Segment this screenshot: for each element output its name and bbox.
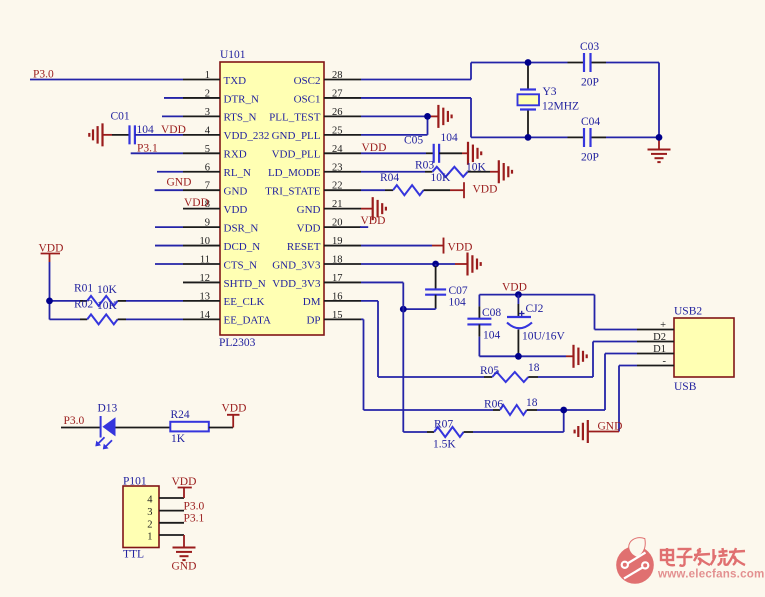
svg-text:3: 3 <box>147 507 152 518</box>
svg-text:18: 18 <box>332 255 343 266</box>
svg-text:1.5K: 1.5K <box>433 439 456 451</box>
svg-text:CTS_N: CTS_N <box>224 259 258 271</box>
svg-text:www.elecfans.com: www.elecfans.com <box>657 568 765 581</box>
svg-text:1: 1 <box>147 532 152 543</box>
svg-text:PLL_TEST: PLL_TEST <box>269 112 321 124</box>
svg-text:GND: GND <box>598 421 623 433</box>
svg-text:1: 1 <box>205 70 210 81</box>
svg-text:20P: 20P <box>581 152 599 164</box>
svg-text:C05: C05 <box>404 135 423 147</box>
svg-text:16: 16 <box>332 291 343 302</box>
svg-text:P3.0: P3.0 <box>64 415 85 427</box>
svg-text:R24: R24 <box>171 409 190 421</box>
svg-text:DM: DM <box>303 296 321 308</box>
svg-text:C03: C03 <box>580 41 599 53</box>
svg-text:104: 104 <box>449 297 467 309</box>
svg-text:15: 15 <box>332 310 343 321</box>
svg-text:27: 27 <box>332 88 343 99</box>
svg-text:R06: R06 <box>484 399 503 411</box>
svg-text:RL_N: RL_N <box>224 167 252 179</box>
svg-text:6: 6 <box>205 162 210 173</box>
svg-text:USB2: USB2 <box>674 306 702 318</box>
svg-text:R01: R01 <box>74 283 93 295</box>
svg-text:10K: 10K <box>97 284 118 296</box>
svg-text:VDD: VDD <box>362 142 387 154</box>
svg-text:P3.1: P3.1 <box>137 143 158 155</box>
svg-text:13: 13 <box>200 291 211 302</box>
svg-text:R07: R07 <box>434 419 453 431</box>
svg-text:OSC1: OSC1 <box>294 93 321 105</box>
svg-text:P101: P101 <box>123 476 147 488</box>
svg-text:10K: 10K <box>97 300 118 312</box>
svg-text:R05: R05 <box>480 365 499 377</box>
svg-text:U101: U101 <box>220 49 246 61</box>
svg-text:C07: C07 <box>449 285 468 297</box>
svg-text:20P: 20P <box>581 77 599 89</box>
svg-text:18: 18 <box>526 397 538 409</box>
svg-text:R03: R03 <box>415 160 434 172</box>
svg-text:D13: D13 <box>98 403 118 415</box>
svg-text:23: 23 <box>332 162 343 173</box>
svg-text:25: 25 <box>332 125 343 136</box>
svg-text:VDD: VDD <box>222 403 247 415</box>
svg-text:VDD: VDD <box>224 204 248 216</box>
svg-text:DP: DP <box>306 315 320 327</box>
svg-text:26: 26 <box>332 107 343 118</box>
svg-text:104: 104 <box>483 330 501 342</box>
svg-text:GND_PLL: GND_PLL <box>272 130 321 142</box>
svg-text:5: 5 <box>205 144 210 155</box>
svg-text:VDD: VDD <box>184 197 209 209</box>
svg-text:TTL: TTL <box>123 549 144 561</box>
svg-text:Y3: Y3 <box>543 86 557 98</box>
svg-text:C04: C04 <box>581 116 600 128</box>
svg-text:TRI_STATE: TRI_STATE <box>265 186 321 198</box>
svg-text:VDD: VDD <box>361 215 386 227</box>
svg-text:OSC2: OSC2 <box>294 75 321 87</box>
svg-text:TXD: TXD <box>224 75 247 87</box>
svg-text:1K: 1K <box>171 433 186 445</box>
svg-text:+: + <box>660 320 666 331</box>
svg-text:10K: 10K <box>466 162 487 174</box>
svg-text:21: 21 <box>332 199 343 210</box>
svg-text:12: 12 <box>200 273 211 284</box>
svg-text:12MHZ: 12MHZ <box>542 101 579 113</box>
svg-text:VDD_3V3: VDD_3V3 <box>272 278 321 290</box>
svg-text:9: 9 <box>205 218 210 229</box>
svg-text:RTS_N: RTS_N <box>224 112 257 124</box>
svg-text:EE_DATA: EE_DATA <box>224 315 271 327</box>
svg-text:DTR_N: DTR_N <box>224 93 260 105</box>
svg-text:R04: R04 <box>380 172 399 184</box>
svg-text:LD_MODE: LD_MODE <box>268 167 321 179</box>
svg-text:CJ2: CJ2 <box>526 303 544 315</box>
svg-text:18: 18 <box>528 362 540 374</box>
svg-text:RESET: RESET <box>287 241 321 253</box>
svg-text:GND: GND <box>224 186 248 198</box>
svg-text:VDD_PLL: VDD_PLL <box>272 149 321 161</box>
svg-text:11: 11 <box>200 255 210 266</box>
svg-text:DCD_N: DCD_N <box>224 241 261 253</box>
svg-text:VDD: VDD <box>473 184 498 196</box>
svg-text:7: 7 <box>205 181 210 192</box>
svg-text:10U/16V: 10U/16V <box>522 331 566 343</box>
svg-text:D2: D2 <box>653 332 666 343</box>
svg-text:P3.1: P3.1 <box>184 513 205 525</box>
svg-text:VDD: VDD <box>502 281 527 293</box>
svg-text:-: - <box>663 356 667 367</box>
svg-text:17: 17 <box>332 273 343 284</box>
svg-text:4: 4 <box>147 495 153 506</box>
svg-text:GND: GND <box>167 177 192 189</box>
svg-text:10: 10 <box>200 236 211 247</box>
svg-text:4: 4 <box>205 125 211 136</box>
svg-text:28: 28 <box>332 70 343 81</box>
svg-text:D1: D1 <box>653 344 666 355</box>
svg-text:GND_3V3: GND_3V3 <box>272 259 321 271</box>
svg-text:104: 104 <box>441 132 459 144</box>
svg-text:VDD: VDD <box>172 476 197 488</box>
svg-text:3: 3 <box>205 107 210 118</box>
svg-text:19: 19 <box>332 236 343 247</box>
svg-text:104: 104 <box>137 124 155 136</box>
svg-text:VDD: VDD <box>161 124 186 136</box>
svg-text:14: 14 <box>200 310 211 321</box>
svg-text:USB: USB <box>674 381 697 393</box>
svg-text:VDD: VDD <box>448 242 473 254</box>
svg-text:PL2303: PL2303 <box>219 337 256 349</box>
svg-text:DSR_N: DSR_N <box>224 222 259 234</box>
svg-text:P3.0: P3.0 <box>184 501 205 513</box>
svg-text:RXD: RXD <box>224 149 247 161</box>
svg-text:2: 2 <box>147 519 152 530</box>
svg-text:P3.0: P3.0 <box>33 69 54 81</box>
svg-text:2: 2 <box>205 88 210 99</box>
svg-text:GND: GND <box>172 561 197 573</box>
svg-text:22: 22 <box>332 181 343 192</box>
svg-text:C08: C08 <box>482 307 501 319</box>
svg-text:VDD_232: VDD_232 <box>224 130 270 142</box>
svg-text:GND: GND <box>297 204 321 216</box>
svg-text:VDD: VDD <box>297 222 321 234</box>
svg-text:10K: 10K <box>431 172 452 184</box>
svg-text:C01: C01 <box>111 111 130 123</box>
svg-text:R02: R02 <box>74 299 93 311</box>
svg-text:EE_CLK: EE_CLK <box>224 296 265 308</box>
svg-text:20: 20 <box>332 218 343 229</box>
svg-text:SHTD_N: SHTD_N <box>224 278 266 290</box>
svg-text:24: 24 <box>332 144 343 155</box>
